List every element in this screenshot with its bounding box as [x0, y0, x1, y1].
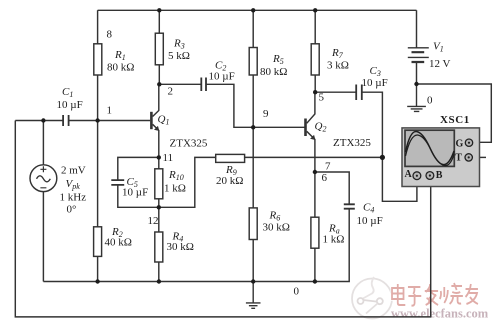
svg-text:A: A — [405, 169, 413, 180]
junction bus R4 — [157, 279, 161, 283]
wire node 2 row R3 to C2 to Q2 base — [159, 84, 305, 127]
wire node 5 row R7 to C3 and output drop to scope A — [315, 92, 417, 201]
svg-text:5 kΩ: 5 kΩ — [168, 50, 190, 62]
wire node 11 Q1 emitter to C5 — [118, 157, 159, 207]
junction node 12 — [157, 205, 161, 209]
svg-text:0: 0 — [427, 95, 433, 107]
svg-text:2 mV: 2 mV — [61, 165, 86, 177]
junction node 2 — [157, 82, 161, 86]
capacitor C3 — [356, 85, 362, 101]
svg-text:ZTX325: ZTX325 — [333, 137, 371, 149]
svg-text:30 kΩ: 30 kΩ — [263, 222, 290, 234]
svg-text:www.elecfans.com: www.elecfans.com — [391, 307, 489, 321]
terminal G — [465, 139, 472, 146]
svg-text:9: 9 — [263, 108, 269, 120]
battery V1 — [408, 10, 429, 84]
terminal B — [426, 172, 434, 180]
wire battery negative to scope G — [417, 84, 492, 142]
wire ground bus (node 0) — [43, 209, 349, 282]
svg-text:B: B — [436, 170, 443, 181]
svg-text:2: 2 — [168, 86, 174, 98]
capacitor C4 — [344, 204, 355, 208]
AC source V2 2mV 1kHz — [30, 121, 57, 282]
svg-text:10 µF: 10 µF — [209, 71, 235, 83]
resistor R2 — [94, 121, 102, 282]
wire left loop from input node to scope B — [15, 121, 430, 317]
svg-text:1 kHz: 1 kHz — [60, 192, 87, 204]
resistor R4 — [155, 207, 163, 281]
svg-text:12: 12 — [148, 215, 159, 227]
junction node 7 — [313, 170, 317, 174]
junction top rail R5 — [251, 8, 255, 12]
resistor R5 — [249, 10, 257, 127]
junction bus Ra — [313, 279, 317, 283]
junction source tap node 1 — [41, 118, 45, 122]
svg-text:10 µF: 10 µF — [122, 187, 148, 199]
resistor R9 horizontal feedback — [216, 154, 245, 162]
svg-text:20 kΩ: 20 kΩ — [216, 175, 243, 187]
resistor R7 — [311, 10, 319, 92]
svg-text:ZTX325: ZTX325 — [170, 138, 208, 150]
junction bus R2 — [95, 279, 99, 283]
junction R1 bottom node 1 — [95, 118, 99, 122]
svg-text:6: 6 — [322, 172, 328, 184]
oscilloscope XSC1 body — [402, 128, 480, 187]
svg-text:1 kΩ: 1 kΩ — [323, 234, 345, 246]
svg-text:10 µF: 10 µF — [362, 77, 388, 89]
junction top rail R3 — [157, 8, 161, 12]
svg-text:80 kΩ: 80 kΩ — [260, 66, 287, 78]
junction Q2 base node 9 — [251, 125, 255, 129]
wire node 7 Q2 emitter to C4 — [315, 172, 349, 204]
watermark elecfans logo — [352, 277, 392, 319]
transistor Q1 — [151, 84, 159, 157]
svg-text:8: 8 — [107, 29, 113, 41]
svg-text:10 µF: 10 µF — [57, 99, 83, 111]
wire node 12 branch and feedback through R9 — [159, 157, 383, 207]
capacitor C1 — [63, 115, 69, 126]
resistor R3 — [155, 10, 163, 84]
oscilloscope screen — [405, 130, 454, 166]
svg-text:7: 7 — [325, 161, 331, 173]
svg-text:T: T — [455, 152, 462, 163]
svg-text:1: 1 — [107, 105, 113, 117]
svg-text:XSC1: XSC1 — [440, 114, 470, 126]
svg-text:1 kΩ: 1 kΩ — [164, 183, 186, 195]
ground at battery — [407, 84, 426, 111]
junction battery negative — [414, 82, 418, 86]
capacitor C5 — [111, 180, 124, 185]
ground at bottom bus — [246, 282, 261, 309]
svg-text:11: 11 — [163, 152, 174, 164]
svg-text:80 kΩ: 80 kΩ — [107, 62, 134, 74]
resistor R1 — [94, 10, 102, 120]
svg-text:G: G — [456, 139, 464, 150]
resistor R6 — [249, 127, 257, 281]
junction node 5 — [313, 90, 317, 94]
scope waveform trace B — [406, 135, 455, 166]
watermark chinese text 电子发烧友 — [392, 283, 478, 306]
watermark chinese text white emboss layer — [392, 283, 478, 306]
junction top rail R7 — [313, 8, 317, 12]
junction bus ground — [251, 279, 255, 283]
svg-text:3 kΩ: 3 kΩ — [327, 60, 349, 72]
svg-text:0°: 0° — [67, 204, 77, 216]
svg-text:10 µF: 10 µF — [357, 215, 383, 227]
scope waveform trace A — [406, 131, 455, 164]
junction node 11 — [157, 155, 161, 159]
terminal T — [465, 154, 472, 161]
capacitor C2 — [201, 78, 206, 92]
terminal A — [413, 172, 421, 180]
svg-text:5: 5 — [319, 92, 325, 104]
resistor Ra — [311, 172, 319, 282]
svg-text:30 kΩ: 30 kΩ — [167, 241, 194, 253]
transistor Q2 — [306, 92, 316, 172]
svg-text:40 kΩ: 40 kΩ — [105, 237, 132, 249]
resistor R10 — [155, 157, 163, 207]
wire input row node 1 — [15, 120, 150, 122]
wire scope T stub — [472, 156, 486, 158]
svg-text:12 V: 12 V — [429, 58, 451, 70]
junction output node at scope A drop — [380, 155, 385, 160]
wire top supply rail (node 8) — [98, 9, 417, 11]
svg-text:0: 0 — [294, 286, 300, 298]
